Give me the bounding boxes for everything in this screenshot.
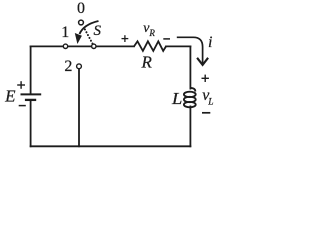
wire left rail bottom: [30, 101, 32, 146]
inductor L: [184, 88, 196, 108]
node 2 label: [64, 58, 72, 75]
vR label: [143, 21, 155, 38]
resistor R label: [141, 53, 153, 72]
vR - sign: [163, 38, 170, 40]
wire right rail top: [189, 46, 191, 88]
svg-text:vR: vR: [143, 21, 155, 38]
inductor L label: [171, 89, 182, 108]
battery + sign: [17, 81, 25, 89]
current arrow i: [177, 37, 208, 65]
svg-text:vL: vL: [202, 87, 213, 108]
wire bottom rail: [31, 145, 191, 147]
svg-text:R: R: [141, 53, 153, 72]
wire contact 2 stub: [78, 69, 80, 146]
svg-text:0: 0: [77, 0, 85, 17]
svg-text:i: i: [208, 34, 212, 51]
switch contact 1: [63, 44, 67, 48]
svg-text:S: S: [94, 23, 102, 39]
vL + sign: [202, 75, 209, 82]
switch motion arrowhead: [75, 33, 82, 44]
svg-text:L: L: [171, 89, 182, 108]
node 1 label: [61, 24, 69, 41]
svg-text:2: 2: [64, 58, 72, 75]
node 0 label: [77, 0, 85, 17]
svg-text:1: 1: [61, 24, 69, 41]
wire top rail: [31, 45, 134, 47]
switch contact 0: [79, 20, 84, 25]
vR + sign: [122, 35, 129, 42]
vL label: [202, 87, 213, 108]
battery E: [21, 94, 42, 100]
current i label: [208, 34, 212, 51]
vL - sign: [202, 112, 210, 114]
wire left rail top: [30, 46, 32, 93]
switch contact 2: [77, 64, 82, 69]
switch motion arrow S arc: [80, 21, 99, 34]
switch blade dotted (position 0): [85, 29, 93, 44]
wire right rail bottom: [189, 106, 191, 146]
battery E label: [4, 87, 16, 106]
switch pivot: [92, 44, 96, 48]
resistor R: [134, 41, 166, 51]
wire top right segment: [166, 45, 190, 47]
svg-text:E: E: [4, 87, 16, 106]
switch S label: [94, 23, 102, 39]
battery - sign: [19, 105, 26, 107]
